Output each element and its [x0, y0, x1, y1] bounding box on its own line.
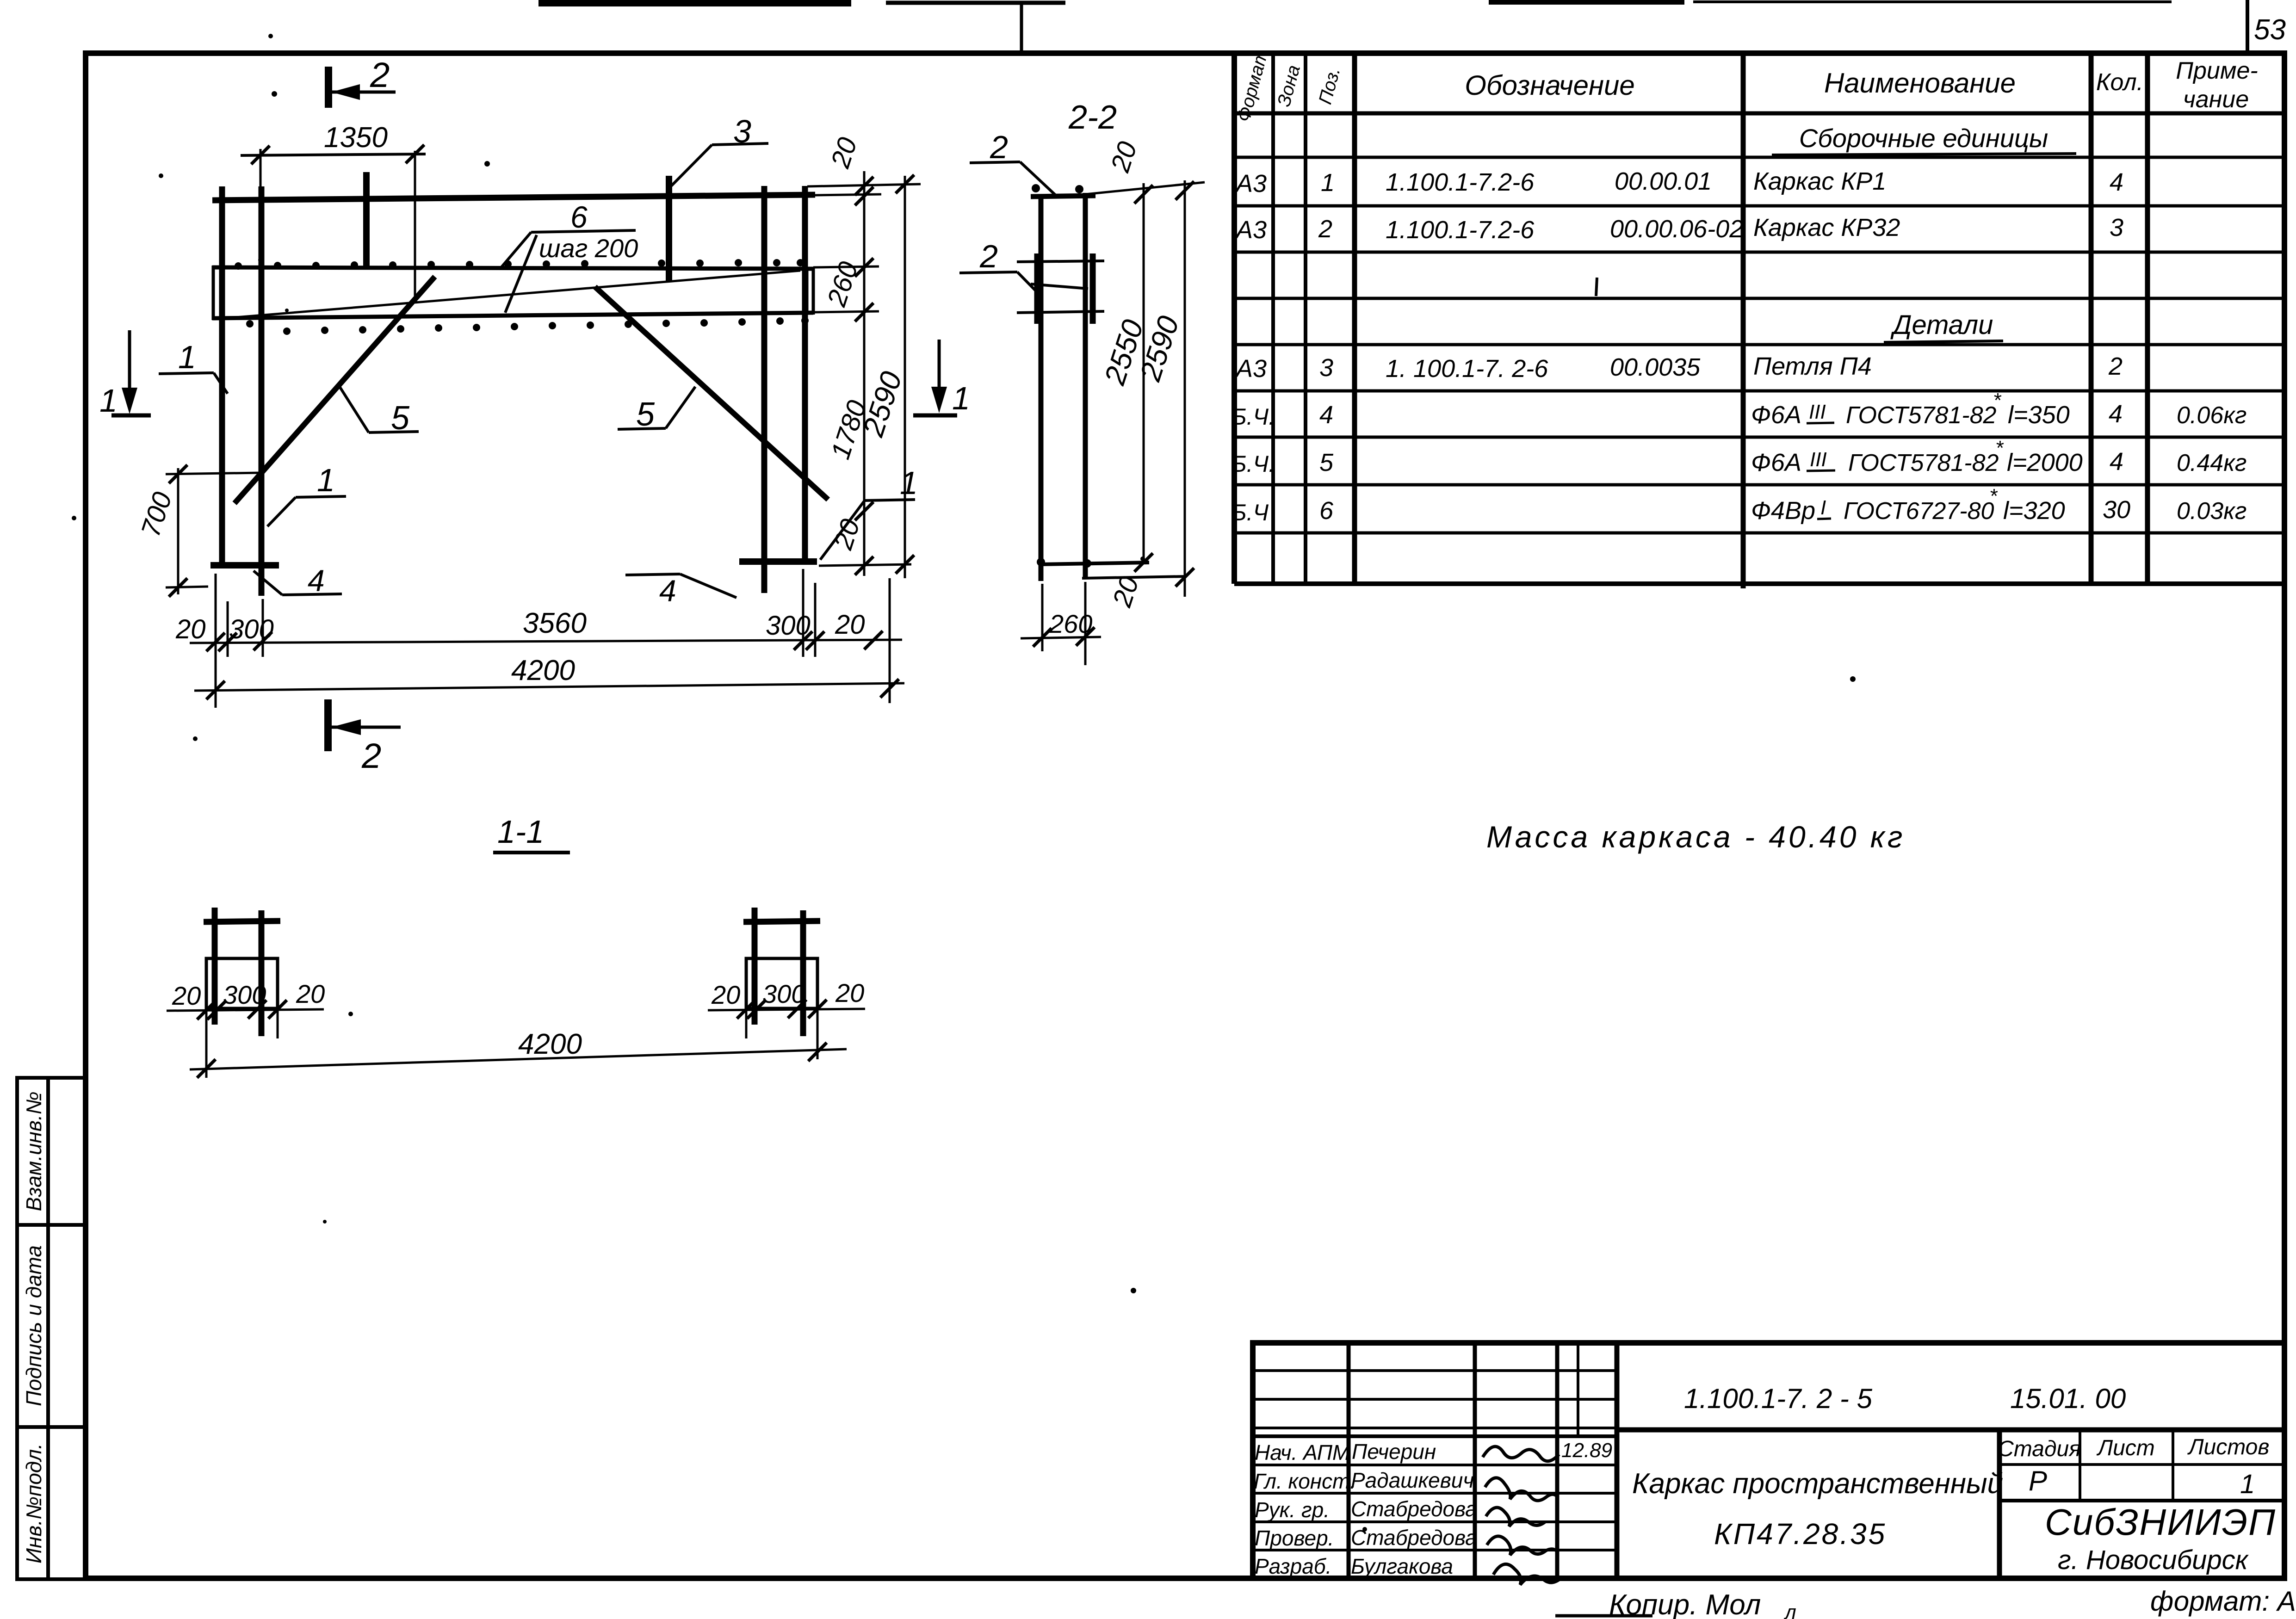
right column outer bar [802, 186, 808, 562]
column line Format/Zona [1271, 53, 1275, 584]
svg-text:1: 1 [178, 339, 196, 375]
svg-text:300: 300 [229, 614, 274, 644]
svg-text:l=320: l=320 [2003, 497, 2065, 525]
svg-text:1: 1 [900, 465, 918, 501]
1-1 right dims 20 300 20 [708, 1000, 865, 1059]
svg-text:Гл. конст.: Гл. конст. [1254, 1469, 1356, 1493]
row line 2 [1234, 156, 2284, 159]
beam top chord [212, 195, 815, 200]
dim ticks right chain [855, 175, 914, 575]
svg-text:6: 6 [570, 200, 588, 234]
right vertical dimension chain extension lines [807, 171, 921, 578]
svg-text:А3: А3 [1235, 216, 1267, 244]
svg-text:Ф6А: Ф6А [1751, 449, 1801, 476]
label 1 right column leader [820, 500, 915, 560]
svg-text:Сборочные единицы: Сборочные единицы [1799, 124, 2048, 153]
svg-text:4: 4 [2110, 168, 2123, 196]
svg-text:1: 1 [1321, 169, 1335, 197]
svg-text:ГОСТ5781-82: ГОСТ5781-82 [1846, 402, 1997, 429]
row line 6 [1234, 343, 2284, 346]
svg-text:КП47.28.35: КП47.28.35 [1714, 1517, 1887, 1551]
svg-text:20: 20 [296, 979, 325, 1008]
bent bar thin diagonal [214, 271, 800, 319]
svg-text:1. 100.1-7. 2-6: 1. 100.1-7. 2-6 [1386, 355, 1548, 383]
svg-text:Провер.: Провер. [1255, 1526, 1334, 1550]
row line 5 [1234, 297, 2284, 300]
svg-text:5: 5 [391, 400, 410, 437]
svg-text:Р: Р [2029, 1465, 2047, 1496]
left column inner bar [259, 186, 265, 596]
svg-text:III: III [1809, 401, 1826, 423]
scan artifact: top edge dashes [538, 2, 2172, 51]
row line 7 [1234, 389, 2284, 393]
svg-text:4200: 4200 [518, 1028, 582, 1060]
svg-text:Б.Ч: Б.Ч [1232, 500, 1269, 525]
svg-text:2: 2 [361, 736, 381, 776]
svg-text:Стадия: Стадия [1998, 1437, 2081, 1461]
svg-text:1.100.1-7. 2 - 5: 1.100.1-7. 2 - 5 [1684, 1383, 1873, 1414]
svg-text:15.01. 00: 15.01. 00 [2010, 1383, 2126, 1414]
svg-text:Каркас КР32: Каркас КР32 [1753, 214, 1900, 241]
row line 3 [1234, 204, 2284, 208]
left diagonal brace pos.5 [235, 277, 435, 503]
2-2 label 2 lower with leader [959, 272, 1088, 294]
1-1 right column section outline [746, 958, 817, 1008]
svg-text:2: 2 [979, 238, 998, 274]
1-1 left top cap bar [204, 921, 280, 922]
svg-text:Каркас КР1: Каркас КР1 [1753, 167, 1886, 195]
label 1 left column leader [267, 496, 346, 526]
label 5 right with leader [618, 387, 695, 429]
scan speck dots [72, 34, 1856, 1532]
column line Zona/Poz [1304, 53, 1307, 584]
svg-text:Ф4Вр: Ф4Вр [1751, 497, 1815, 525]
svg-text:12.89: 12.89 [1561, 1439, 1612, 1462]
svg-text:4200: 4200 [511, 655, 575, 686]
svg-text:л: л [1783, 1601, 1796, 1619]
stirrup dots above upper rebar [235, 259, 804, 270]
svg-text:Булгакова: Булгакова [1351, 1554, 1453, 1578]
svg-text:Листов: Листов [2187, 1435, 2270, 1459]
svg-text:Лист: Лист [2096, 1436, 2155, 1460]
beam left end cap [212, 266, 215, 320]
svg-text:Разраб.: Разраб. [1255, 1554, 1331, 1578]
row line 4 [1234, 251, 2284, 254]
svg-text:300: 300 [766, 611, 811, 641]
1-1 left column section outline [206, 958, 278, 1008]
label 3 with leader [669, 143, 768, 188]
svg-text:3560: 3560 [523, 607, 587, 639]
svg-text:00.00.06-02: 00.00.06-02 [1610, 215, 1743, 243]
svg-text:2: 2 [990, 129, 1008, 165]
svg-text:00.00.01: 00.00.01 [1615, 167, 1712, 195]
title block outer box [1253, 1343, 2284, 1578]
svg-text:1.100.1-7.2-6: 1.100.1-7.2-6 [1386, 216, 1535, 244]
svg-text:30: 30 [2103, 496, 2130, 524]
Stadia row bottom line [1999, 1499, 2284, 1502]
svg-text:1.100.1-7.2-6: 1.100.1-7.2-6 [1386, 168, 1535, 196]
svg-text:1: 1 [317, 462, 335, 498]
svg-text:СибЗНИИЭП: СибЗНИИЭП [2045, 1502, 2276, 1543]
1-1 right rebar 2 [800, 910, 806, 1036]
lifting loop bar P4 left [363, 172, 370, 267]
section marker 1 (left) [111, 330, 151, 415]
svg-text:0.44кг: 0.44кг [2177, 450, 2246, 476]
2-2 bottom cap [1041, 562, 1149, 564]
svg-text:г. Новосибирск: г. Новосибирск [2058, 1545, 2249, 1575]
2-2 dimension 260 bottom [1021, 582, 1101, 665]
svg-text:Подпись и дата: Подпись и дата [22, 1245, 46, 1406]
svg-text:4: 4 [2109, 400, 2123, 428]
svg-text:53: 53 [2254, 14, 2286, 46]
bottom dimension extension lines [216, 569, 890, 708]
svg-text:Каркас пространственный: Каркас пространственный [1632, 1468, 2003, 1500]
2-2 label 2 upper with leader [970, 162, 1057, 196]
svg-text:шаг 200: шаг 200 [539, 234, 638, 263]
vertical: role/name [1347, 1343, 1351, 1578]
svg-text:3: 3 [1319, 354, 1333, 382]
label 5 left with leader [338, 384, 419, 433]
beam upper rebar [212, 267, 813, 269]
section marker 1 (right) [913, 340, 957, 415]
svg-text:0.06кг: 0.06кг [2177, 402, 2246, 429]
vertical: name/signature [1473, 1343, 1477, 1578]
1-1 right rebar 1 [752, 908, 758, 1025]
svg-text:1: 1 [2240, 1469, 2255, 1499]
column line Oboznachenie/Naimenovanie [1741, 53, 1746, 588]
handwritten signatures squiggles [1483, 1446, 1561, 1585]
svg-text:Приме-: Приме- [2176, 57, 2258, 84]
vertical: top-row extra divider [1577, 1343, 1579, 1436]
left section top rows [1253, 1369, 1617, 1372]
svg-text:2: 2 [2108, 352, 2123, 380]
svg-text:Стабредова: Стабредова [1351, 1497, 1477, 1521]
table bottom edge [1234, 581, 2284, 586]
svg-text:4: 4 [2110, 448, 2123, 476]
vertical: left/middle section boundary [1615, 1343, 1620, 1578]
sheet number 53 box line [2246, 0, 2249, 55]
svg-text:3: 3 [733, 113, 751, 149]
svg-text:Наименование: Наименование [1824, 68, 2016, 99]
1-1 right top cap bar [743, 921, 820, 922]
svg-text:20: 20 [172, 981, 201, 1010]
underline below Копир [1555, 1614, 1652, 1618]
beam right end cap [812, 267, 815, 315]
column line Naimenovanie/Kol [2089, 53, 2094, 584]
row line 10 [1234, 531, 2284, 535]
svg-text:Радашкевич: Радашкевич [1351, 1468, 1474, 1492]
svg-text:III: III [1810, 448, 1827, 471]
svg-text:4: 4 [659, 574, 676, 608]
2-2 bar end dots [1032, 184, 1091, 568]
section marker 2 (top) [328, 67, 396, 108]
svg-text:l=2000: l=2000 [2007, 449, 2083, 476]
row line 9 [1234, 483, 2284, 487]
column line Kol/Primechanie [2145, 53, 2150, 584]
svg-text:Стабредова: Стабредова [1351, 1526, 1477, 1550]
header bottom line [1234, 111, 2284, 116]
2-2 middle frame right bar [1090, 253, 1096, 324]
svg-text:Ф6А: Ф6А [1751, 401, 1801, 429]
svg-text:Б.Ч.: Б.Ч. [1232, 451, 1275, 477]
svg-text:I: I [1820, 496, 1826, 519]
vertical: signature/date [1555, 1343, 1560, 1578]
svg-text:5: 5 [1319, 449, 1334, 476]
vertical: middle/right section boundary [1997, 1430, 2002, 1578]
svg-text:Нач. АПМ: Нач. АПМ [1255, 1440, 1350, 1465]
row line 8 [1234, 436, 2284, 439]
svg-text:l=350: l=350 [2008, 401, 2070, 429]
svg-text:1-1: 1-1 [497, 814, 544, 850]
signature row lines [1253, 1434, 1617, 1438]
1-1 dimension 4200 [190, 1038, 847, 1078]
left column base plate [210, 562, 279, 569]
svg-text:*: * [1993, 389, 2002, 412]
right diagonal brace pos.5 [595, 287, 828, 500]
svg-text:2: 2 [370, 56, 390, 95]
2-2 right vertical bar [1083, 193, 1088, 579]
section marker 2 (bottom) [328, 699, 401, 751]
2-2 top cap [1031, 196, 1095, 197]
column line Poz/Oboznachenie [1352, 53, 1357, 584]
svg-text:1350: 1350 [324, 122, 388, 154]
svg-text:4: 4 [308, 563, 325, 598]
svg-text:формат: А: формат: А [2150, 1586, 2296, 1617]
label 6 with leader (шаг 200) [500, 230, 636, 313]
svg-text:Б.Ч.: Б.Ч. [1232, 404, 1275, 430]
svg-text:300: 300 [223, 980, 266, 1009]
dimension 700 (left) [166, 465, 261, 597]
dimension 1350 [241, 145, 426, 296]
2-2 dimension 2590 [1176, 180, 1194, 597]
svg-text:*: * [1995, 437, 2004, 459]
svg-text:2: 2 [1318, 215, 1332, 243]
right column base plate [739, 558, 817, 565]
svg-text:20: 20 [175, 614, 206, 644]
1-1 left rebar 1 [212, 908, 218, 1025]
svg-text:3: 3 [2110, 214, 2123, 241]
svg-text:А3: А3 [1235, 170, 1267, 198]
Stadia header row line [1999, 1463, 2284, 1466]
svg-text:Масса каркаса - 40.40 кг: Масса каркаса - 40.40 кг [1486, 820, 1905, 854]
svg-text:чание: чание [2183, 86, 2249, 113]
svg-text:260: 260 [1049, 609, 1092, 638]
svg-text:00.0035: 00.0035 [1610, 353, 1701, 381]
2-2 middle frame left bar [1034, 253, 1040, 324]
svg-text:20: 20 [711, 980, 740, 1009]
dimension line 4200 [194, 679, 904, 699]
2-2 left vertical bar [1039, 195, 1044, 581]
label 4 right with leader [625, 574, 736, 598]
right column inner bar [761, 186, 767, 593]
svg-text:Взам.инв.№: Взам.инв.№ [22, 1092, 46, 1211]
svg-text:6: 6 [1319, 497, 1334, 525]
svg-text:*: * [1989, 485, 1998, 507]
2-2 dimension 2550 [1134, 183, 1153, 572]
label 1 left column outer leader [159, 373, 228, 394]
svg-text:4: 4 [1319, 401, 1333, 429]
svg-text:Детали: Детали [1890, 310, 1993, 340]
2-2 top extension thin line [1085, 182, 1205, 194]
svg-text:Печерин: Печерин [1352, 1440, 1436, 1464]
svg-text:Кол.: Кол. [2096, 69, 2143, 96]
left column outer bar [219, 186, 225, 565]
dim line 20/260/1780/20 [863, 171, 866, 576]
svg-text:ГОСТ6727-80: ГОСТ6727-80 [1844, 498, 1994, 525]
2-2 middle frame horizontals [1017, 261, 1104, 262]
svg-text:5: 5 [636, 396, 655, 433]
vertical Stadia/List [2079, 1430, 2081, 1501]
stirrup dots below lower rebar [246, 317, 809, 335]
1-1 left rebar 2 [259, 910, 265, 1036]
vertical List/Listov [2172, 1430, 2174, 1501]
beam lower rebar [212, 313, 813, 318]
1-1 left dims 20 300 20 [167, 1000, 324, 1038]
svg-text:Инв.№подл.: Инв.№подл. [22, 1443, 46, 1563]
table outer left edge [1232, 53, 1237, 584]
svg-text:1: 1 [952, 380, 970, 416]
svg-text:20: 20 [835, 978, 864, 1007]
svg-text:А3: А3 [1235, 355, 1267, 383]
svg-text:2-2: 2-2 [1068, 99, 1117, 136]
svg-text:0.03кг: 0.03кг [2177, 498, 2246, 525]
svg-text:1: 1 [99, 383, 118, 419]
label 4 left with leader [254, 571, 342, 595]
dimension line 3560 [190, 631, 902, 651]
lifting loop bar P4 right [666, 176, 672, 282]
stray mark in empty row [1596, 278, 1597, 296]
svg-text:ГОСТ5781-82: ГОСТ5781-82 [1848, 450, 1999, 476]
svg-text:300: 300 [762, 979, 805, 1008]
svg-text:Петля П4: Петля П4 [1753, 352, 1872, 380]
left margin stamp strip [17, 1078, 86, 1579]
horizontal: doc number row bottom [1617, 1427, 2284, 1433]
svg-text:Обозначение: Обозначение [1465, 70, 1635, 101]
svg-text:20: 20 [835, 610, 865, 640]
dim line 2590 [904, 176, 906, 578]
svg-text:Рук. гр.: Рук. гр. [1255, 1498, 1330, 1522]
title underline [493, 851, 570, 854]
